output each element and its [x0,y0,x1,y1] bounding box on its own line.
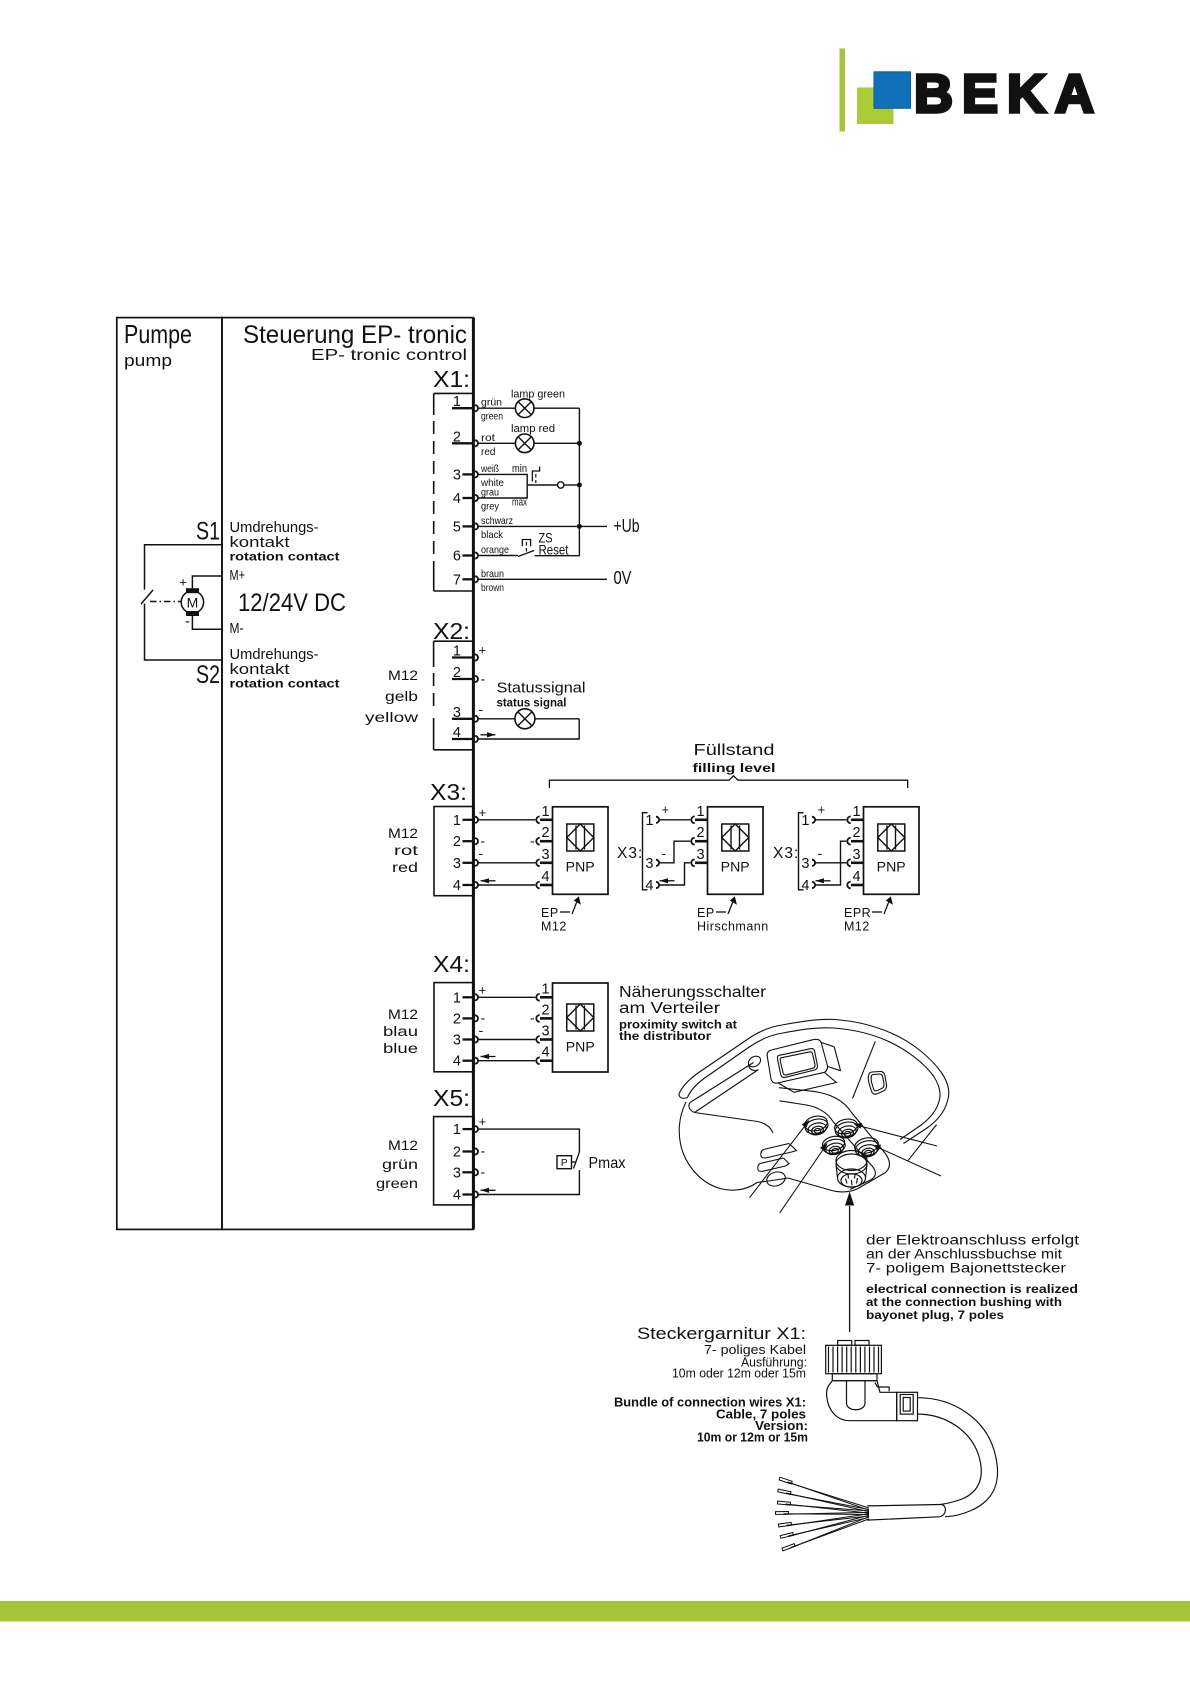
svg-text:kontakt: kontakt [230,662,290,678]
svg-text:3: 3 [453,1165,461,1181]
svg-text:brown: brown [481,582,504,594]
svg-text:EPR: EPR [844,906,871,920]
svg-text:am Verteiler: am Verteiler [619,1000,720,1017]
svg-text:-: - [818,845,823,861]
bayonet plug knurled ring [826,1341,998,1521]
leader line from D to right [878,1148,941,1177]
svg-text:PNP: PNP [877,859,906,875]
svg-text:3: 3 [541,1024,549,1040]
lid underside strip upper [690,1063,754,1103]
svg-text:-: - [481,1143,486,1159]
svg-text:PNP: PNP [566,859,595,875]
connector recess inner [780,1101,876,1190]
svg-text:grün: grün [481,397,502,409]
svg-text:braun: braun [481,568,504,580]
svg-text:X2:: X2: [433,618,470,644]
X3 box [434,807,474,896]
svg-text:M+: M+ [230,567,246,584]
svg-text:4: 4 [541,869,549,885]
svg-text:12/24V DC: 12/24V DC [238,589,346,617]
lamp green [515,399,534,418]
svg-text:4: 4 [453,491,461,507]
svg-text:2: 2 [541,825,549,841]
connector recess outer [779,1088,890,1192]
svg-text:EP: EP [697,906,715,920]
group3 wires [816,819,847,821]
bayonet connector [836,1151,867,1171]
svg-text:X5:: X5: [433,1085,470,1111]
barrel bottom edge [757,1178,788,1183]
svg-text:Steckergarnitur X1:: Steckergarnitur X1: [637,1324,806,1343]
group2 wires [660,819,691,821]
outlet fitting lower [758,1158,789,1172]
svg-text:4: 4 [453,1188,461,1204]
svg-text:3: 3 [696,847,704,863]
svg-text:Umdrehungs-: Umdrehungs- [230,647,319,663]
svg-text:-: - [479,701,484,717]
button inner [871,1074,884,1091]
svg-text:2: 2 [696,825,704,841]
NC contact circle [558,482,564,488]
plug flange [832,1374,877,1381]
svg-text:Statussignal: Statussignal [497,680,586,697]
mech linkage dash-dot [150,601,181,603]
svg-text:Umdrehungs-: Umdrehungs- [230,520,319,536]
lid underside strip lower [695,1070,759,1113]
svg-text:3: 3 [453,1033,461,1049]
svg-text:-: - [481,671,486,687]
strip left arc [689,1103,695,1113]
wire pin6 reset blade [478,555,518,557]
svg-text:4: 4 [645,878,653,894]
wire pin4 step [478,485,527,498]
svg-text:3: 3 [852,847,860,863]
svg-text:weiß: weiß [480,463,499,475]
svg-text:M12: M12 [388,826,418,841]
svg-text:+Ub: +Ub [614,515,640,536]
svg-text:EP- tronic control: EP- tronic control [311,347,467,364]
svg-text:2: 2 [453,1145,461,1161]
svg-text:1: 1 [453,1122,461,1138]
window screen frame [777,1049,817,1078]
svg-text:7: 7 [453,572,461,588]
bracket group2 [643,813,648,890]
X5 pmax loop [478,1129,579,1194]
wire pin3 step [478,474,527,485]
outlet fitting upper [761,1144,797,1159]
svg-text:M-: M- [230,620,244,637]
green footer bar [0,1601,1190,1622]
boot inner U [847,1381,866,1410]
X3 sensor1 wires [478,819,535,821]
svg-text:-: - [530,1010,535,1026]
svg-text:-: - [479,1022,484,1038]
switch actuator dashes [535,474,537,483]
svg-text:5: 5 [453,519,461,535]
svg-text:orange: orange [481,544,509,556]
svg-text:3: 3 [453,467,461,483]
wire pin2 to lamp red [478,442,579,444]
button outer [868,1071,886,1094]
X2 box [434,640,474,642]
PNP box 2 [708,807,764,895]
pmax blade [574,1152,580,1169]
svg-text:-: - [481,1164,486,1180]
motor brush bottom [186,611,199,616]
svg-text:3: 3 [453,856,461,872]
svg-text:0V: 0V [614,567,633,588]
logo green bar [840,49,846,132]
X4 box [434,983,474,1072]
svg-text:BEKA: BEKA [914,64,1103,124]
rim edge continuation right [908,1125,937,1161]
X3 in arrow [481,880,496,882]
wire S2 bottom [145,604,223,661]
X4 in arrow [481,1056,496,1058]
svg-text:min: min [512,463,527,475]
wire pin5 +Ub [478,525,607,527]
junction dot +Ub [577,524,582,529]
svg-text:der Elektroanschluss erfolgt: der Elektroanschluss erfolgt [866,1233,1079,1248]
svg-text:rotation contact: rotation contact [230,679,340,691]
group3 in arrow [816,880,831,882]
X2 status loop wire [478,719,579,739]
svg-text:2: 2 [453,834,461,850]
boot step detail [875,1382,889,1391]
svg-text:bayonet plug, 7 poles: bayonet plug, 7 poles [866,1310,1004,1322]
svg-text:-: - [662,845,667,861]
svg-text:2: 2 [852,825,860,841]
svg-text:red: red [481,446,496,458]
svg-text:M12: M12 [388,1138,418,1153]
svg-text:Hirschmann: Hirschmann [697,920,769,934]
svg-text:1: 1 [453,813,461,829]
svg-text:+: + [479,1114,487,1129]
svg-text:gelb: gelb [385,689,418,704]
plug boot body [827,1381,897,1421]
svg-text:PNP: PNP [721,859,750,875]
filling level brace [549,776,907,788]
svg-text:pump: pump [124,351,172,370]
svg-text:Steuerung EP- tronic: Steuerung EP- tronic [243,321,467,349]
svg-text:-: - [185,613,190,630]
svg-text:the distributor: the distributor [619,1029,711,1043]
svg-text:EP: EP [541,906,559,920]
cable end sheath [867,1505,945,1521]
reset blade [518,551,534,557]
svg-text:1: 1 [852,804,860,820]
junction dot lamp red [577,441,582,446]
svg-text:1: 1 [801,813,809,829]
pump motor circuit [141,518,346,691]
housing rim inner [688,1028,941,1140]
svg-text:7- poligem Bajonettstecker: 7- poligem Bajonettstecker [866,1261,1067,1276]
svg-text:Pumpe: Pumpe [124,319,192,349]
lamp red [515,434,534,453]
body barrel left [679,1102,757,1190]
junction dot min-max [577,483,582,488]
switch blade S1/S2 [141,590,153,604]
svg-text:-: - [530,833,535,849]
connector C [821,1134,847,1156]
min-max common wire [527,484,557,486]
svg-text:4: 4 [453,878,461,894]
PNP box 3 [864,807,920,895]
BEKA logo [840,49,1104,132]
window box depth bottom [778,1072,836,1092]
svg-text:4: 4 [852,869,860,885]
svg-text:+: + [818,802,826,817]
svg-text:4: 4 [453,1054,461,1070]
svg-text:green: green [481,411,503,423]
svg-text:filling level: filling level [693,763,776,775]
min-max switch symbol [532,467,539,482]
svg-text:3: 3 [801,856,809,872]
X5 in arrow [481,1189,496,1191]
motor M1 circle [181,591,203,613]
svg-text:an der Anschlussbuchse mit: an der Anschlussbuchse mit [866,1247,1062,1262]
connector D [853,1136,880,1160]
X2 out arrow [481,734,496,736]
svg-text:grün: grün [382,1157,418,1172]
vertical arrow to bayonet [849,1206,851,1332]
knurl ribs [828,1347,830,1373]
svg-text:1: 1 [696,804,704,820]
svg-text:+: + [479,983,487,998]
svg-text:yellow: yellow [365,710,418,725]
svg-text:M12: M12 [541,920,567,934]
svg-text:1: 1 [541,981,549,997]
svg-text:X3:: X3: [773,845,799,862]
reset button symbol [522,540,530,547]
svg-text:2: 2 [541,1002,549,1018]
svg-text:1: 1 [453,990,461,1006]
svg-text:+: + [179,575,187,590]
wire fan [779,1477,869,1510]
crease line front-right [853,1041,876,1098]
svg-text:S1: S1 [196,518,220,546]
X4 wires [478,996,535,998]
PNP box 1 [553,807,609,895]
svg-text:black: black [481,529,504,541]
svg-text:blau: blau [383,1024,418,1039]
svg-text:schwarz: schwarz [481,515,513,527]
svg-text:-: - [479,845,484,861]
logo green square [857,88,894,125]
svg-text:red: red [392,860,418,875]
group2 in arrow [660,880,675,882]
svg-text:M: M [187,595,199,611]
svg-text:+: + [662,802,670,817]
distributor housing illustration [679,1019,949,1192]
svg-text:kontakt: kontakt [230,535,290,551]
X1 connector group [433,366,474,591]
svg-text:2: 2 [453,1011,461,1027]
svg-text:+: + [479,805,487,820]
X4 PNP box [553,983,609,1072]
svg-text:Näherungsschalter: Näherungsschalter [619,984,766,1001]
leader line to connector A [750,1125,807,1198]
svg-text:10m or 12m or 15m: 10m or 12m or 15m [697,1431,808,1445]
svg-text:+: + [479,643,487,658]
cable curve [918,1398,998,1517]
control box right thick border [472,318,475,1230]
main box Pumpe / Steuerung [117,318,474,1230]
svg-text:grau: grau [481,487,499,499]
status lamp [515,709,535,729]
window screen inner [780,1052,815,1075]
svg-text:lamp red: lamp red [511,423,555,435]
svg-text:status signal: status signal [497,698,567,710]
X5 box [434,1117,474,1205]
bracket group3 [799,813,804,890]
control box [222,318,473,1230]
svg-text:rot: rot [394,843,418,858]
lid corner boss [746,1054,762,1069]
svg-text:rotation contact: rotation contact [230,552,340,564]
svg-text:X4:: X4: [433,951,470,977]
svg-text:electrical connection is reali: electrical connection is realized [866,1284,1078,1296]
svg-text:lamp green: lamp green [511,389,565,401]
svg-text:3: 3 [645,856,653,872]
wire M- [192,616,222,629]
svg-text:blue: blue [383,1041,418,1056]
connector B [833,1117,859,1140]
cable clamp block [897,1392,918,1420]
svg-text:X3:: X3: [430,779,467,805]
leader line from B to right [859,1126,937,1146]
svg-text:4: 4 [801,878,809,894]
X1 box [434,392,474,394]
svg-text:X3:: X3: [617,845,643,862]
bus vertical line [578,408,580,556]
svg-text:X1:: X1: [433,366,470,392]
window box outer face [767,1039,827,1083]
P box [557,1156,572,1169]
logo blue square [874,72,911,109]
housing rim outer [679,1019,949,1143]
svg-text:Füllstand: Füllstand [694,742,775,759]
svg-text:at the connection bushing with: at the connection bushing with [866,1297,1062,1309]
strip to body line [695,1113,774,1134]
svg-text:PNP: PNP [566,1039,595,1055]
svg-text:S2: S2 [196,661,220,689]
wire pin1 to lamp green [478,407,579,409]
svg-text:3: 3 [541,847,549,863]
svg-text:rot: rot [481,432,495,444]
svg-text:green: green [376,1176,418,1191]
svg-text:10m oder 12m oder 15m: 10m oder 12m oder 15m [672,1367,806,1381]
svg-text:P: P [561,1158,568,1169]
connector A [803,1114,829,1137]
wire M+ [192,576,222,588]
window box depth right [821,1043,840,1071]
svg-text:grey: grey [481,501,500,513]
pump box [117,318,222,1230]
wire S1 top [145,545,223,590]
svg-text:M12: M12 [388,1007,418,1022]
svg-text:1: 1 [541,804,549,820]
reset actuator dash [525,542,527,553]
outlet end cap [765,1170,787,1189]
svg-text:M12: M12 [388,668,418,683]
wire pin7 0V [478,578,607,580]
leader line to connector C [780,1148,825,1213]
svg-text:M12: M12 [844,920,870,934]
wire after blade [535,555,580,557]
svg-text:1: 1 [645,813,653,829]
svg-text:Pmax: Pmax [589,1155,626,1172]
rim left tip closure [679,1094,688,1098]
motor brush top [186,588,199,593]
svg-text:4: 4 [541,1045,549,1061]
svg-text:6: 6 [453,549,461,565]
